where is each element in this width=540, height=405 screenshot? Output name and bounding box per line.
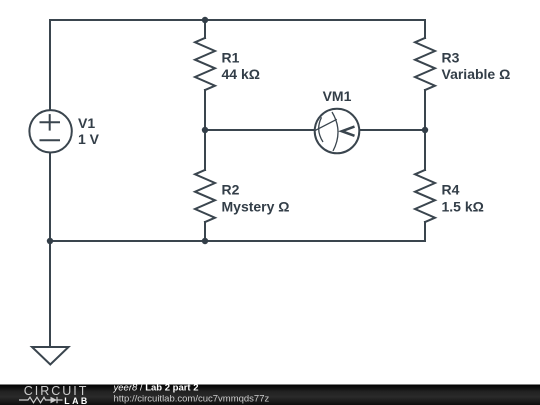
wire left rail upper — [49, 20, 51, 109]
ground — [32, 347, 69, 365]
node top junction — [202, 17, 208, 23]
footer bar — [0, 385, 540, 405]
svg-text:1 V: 1 V — [78, 131, 100, 147]
svg-text:VM1: VM1 — [323, 88, 352, 104]
wire left rail lower — [49, 153, 51, 241]
svg-text:R4: R4 — [442, 182, 460, 198]
svg-text:LAB: LAB — [64, 396, 89, 405]
svg-text:44 kΩ: 44 kΩ — [222, 66, 260, 82]
wire R2 top stub — [204, 130, 206, 170]
node mid-right junction — [422, 127, 428, 133]
resistor R1 — [195, 38, 215, 90]
wire bridge left — [205, 129, 315, 131]
svg-text:Mystery Ω: Mystery Ω — [222, 198, 290, 214]
voltmeter VM1 — [315, 109, 360, 154]
node mid-left junction — [202, 127, 208, 133]
wire bottom rail — [50, 240, 425, 242]
wire R4 bottom stub — [424, 222, 426, 241]
svg-text:1.5 kΩ: 1.5 kΩ — [442, 198, 484, 214]
wire R4 top stub — [424, 130, 426, 170]
wire R1 bottom stub — [204, 90, 206, 130]
svg-text:R2: R2 — [222, 182, 240, 198]
svg-text:R3: R3 — [442, 50, 460, 66]
node bottom-left junction — [47, 238, 53, 244]
svg-text:R1: R1 — [222, 50, 240, 66]
resistor R4 — [415, 170, 435, 222]
wire R3 top stub — [424, 20, 426, 38]
wire R1 top stub — [204, 20, 206, 38]
resistor R2 — [195, 170, 215, 222]
resistor R3 — [415, 38, 435, 90]
svg-text:V1: V1 — [78, 115, 95, 131]
voltage source V1 — [29, 110, 71, 152]
wire R3 bottom stub — [424, 90, 426, 130]
svg-text:yeer8 / Lab 2 part 2: yeer8 / Lab 2 part 2 — [113, 383, 199, 394]
svg-text:Variable Ω: Variable Ω — [442, 66, 511, 82]
wire ground stub — [49, 241, 51, 347]
wire top rail — [50, 19, 425, 21]
node bottom-mid junction — [202, 238, 208, 244]
svg-text:http://circuitlab.com/cuc7vmmq: http://circuitlab.com/cuc7vmmqds77z — [114, 393, 270, 404]
wire R2 bottom stub — [204, 222, 206, 241]
wire bridge right — [360, 129, 426, 131]
logo resistor-diode glyph — [19, 397, 63, 403]
